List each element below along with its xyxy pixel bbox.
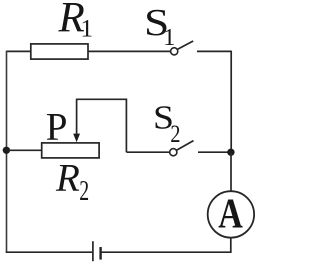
wire R1 to S1 [88,50,170,52]
wire left vertical [6,51,8,253]
wire node to R2 [6,149,41,151]
svg-text:1: 1 [80,13,93,42]
svg-text:2: 2 [170,121,180,148]
svg-text:P: P [46,105,68,148]
potentiometer wiper arrow [76,100,78,136]
battery short plate (negative) [99,247,101,260]
wire S2 to right node [198,151,231,153]
switch S2 pivot [170,149,177,156]
wire bottom-right horizontal (battery short plate to corner) [101,251,232,253]
ammeter A1 body [208,191,254,237]
potentiometer R2 body [42,143,99,158]
svg-text:1: 1 [163,25,175,51]
junction dot right [227,149,234,156]
switch S1 blade [178,41,194,49]
wire S1 to top-right corner [197,50,231,52]
wire right vertical to ammeter [230,152,232,191]
resistor R1 [31,44,88,59]
wire right vertical upper [230,51,232,153]
wire top-left horizontal (left corner to R1 left lead) [7,50,31,52]
wire bottom-left horizontal (to battery long plate) [6,251,93,253]
battery long plate (positive) [92,241,94,261]
wire wiper vertical down [125,99,127,153]
wire ammeter to bottom-right corner [230,238,232,253]
svg-text:2: 2 [79,176,89,207]
svg-text:R: R [55,157,80,200]
switch S2 blade [177,141,194,151]
svg-text:A: A [218,192,243,238]
wire wiper to S2 [126,151,169,153]
junction dot left (node of R2 branch) [3,147,10,154]
wire wiper horizontal [76,98,127,100]
switch S1 pivot [171,48,178,55]
